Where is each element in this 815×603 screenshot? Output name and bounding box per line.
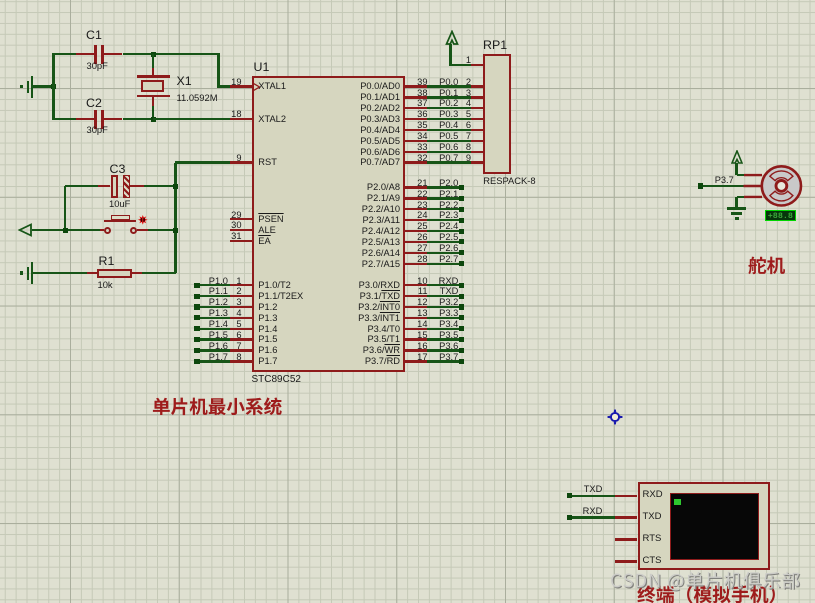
net label P3.3 (430, 308, 458, 318)
net label P0.7 (430, 153, 458, 163)
pin number 3 (218, 297, 242, 307)
wire RST (175, 161, 230, 163)
pin name (330, 182, 400, 192)
capacitor C1 (76, 53, 95, 55)
pin number 8 (218, 352, 242, 362)
terminal P2.1 (459, 196, 464, 201)
pin number 27 (404, 243, 428, 253)
watermark (610, 571, 804, 595)
wire (144, 185, 175, 187)
net label P1.4 (209, 319, 228, 329)
pin number 21 (404, 178, 428, 188)
wire (52, 53, 54, 120)
terminal VT1 virtual-terminal body (638, 482, 771, 570)
pin number 34 (404, 131, 428, 141)
wire (427, 349, 459, 351)
resistor-pack pin 1 stub (471, 64, 483, 66)
wire (33, 85, 54, 87)
pin 11 stub (405, 295, 427, 297)
wire (64, 186, 66, 230)
pin 18 stub (230, 118, 252, 120)
pin 33 stub (405, 151, 427, 153)
terminal pin TXD stub (615, 516, 638, 518)
pin name (330, 302, 400, 312)
pin number 16 (404, 341, 428, 351)
pin 3 stub (230, 306, 252, 308)
pin 30 stub (230, 229, 252, 231)
pin 6 stub (230, 338, 252, 340)
pin number 8 (455, 142, 471, 152)
wire (200, 360, 231, 362)
net label P2.3 (430, 210, 458, 220)
capacitor C3 (65, 185, 98, 187)
wire (427, 107, 471, 109)
pin name (330, 114, 400, 124)
pin number 14 (404, 319, 428, 329)
net label P2.4 (430, 221, 458, 231)
pin name (258, 334, 277, 344)
pin name (643, 490, 663, 500)
terminal input arrow (18, 223, 34, 237)
pin number 13 (404, 308, 428, 318)
servo angle display (765, 210, 797, 221)
label RP1 (483, 39, 507, 52)
node C3-RST junction (173, 184, 178, 189)
net label P0.5 (430, 131, 458, 141)
wire (200, 317, 231, 319)
terminal P3.3 (459, 315, 464, 320)
wire (427, 219, 459, 221)
power VCC arrow (445, 30, 459, 46)
net label P0.6 (430, 142, 458, 152)
pin name (330, 92, 400, 102)
pin name (258, 114, 286, 124)
wire (54, 53, 76, 55)
terminal P2.0 (459, 185, 464, 190)
pin name (258, 324, 277, 334)
pin number 2 (455, 77, 471, 87)
pin number 7 (218, 341, 242, 351)
pin 22 stub (405, 197, 427, 199)
wire (427, 161, 471, 163)
wire (217, 53, 219, 88)
wire (218, 85, 230, 87)
terminal pin RTS stub (615, 538, 638, 540)
pin name (330, 81, 400, 91)
pin number 26 (404, 232, 428, 242)
terminal TXD (567, 493, 572, 498)
net label P3.5 (430, 330, 458, 340)
net label P3.4 (430, 319, 458, 329)
pin number 1 (218, 276, 242, 286)
pin 24 stub (405, 219, 427, 221)
wire (735, 163, 737, 175)
wire (450, 64, 471, 66)
wire (427, 96, 471, 98)
wire (703, 185, 744, 187)
net label P0.1 (430, 88, 458, 98)
terminal P2.7 (459, 261, 464, 266)
terminal P2.5 (459, 239, 464, 244)
pin 9 stub (230, 161, 252, 163)
pin number 9 (455, 153, 471, 163)
pin 10 stub (405, 284, 427, 286)
wire (427, 284, 459, 286)
resistor-pack pin 6 stub (471, 129, 483, 131)
crystal X1 (152, 68, 154, 77)
pin 14 stub (405, 328, 427, 330)
pin name (330, 291, 400, 301)
pin name (330, 313, 400, 323)
wire (572, 495, 614, 497)
pin 23 stub (405, 208, 427, 210)
wire (142, 272, 177, 274)
terminal P3.7 (459, 359, 464, 364)
pin name (258, 81, 286, 91)
pin number 1 (455, 55, 471, 65)
pin number 37 (404, 98, 428, 108)
pin name (330, 356, 400, 366)
pin name (258, 345, 277, 355)
pin name (258, 157, 277, 167)
terminal P3.5 (459, 337, 464, 342)
resistor-pack pin 3 stub (471, 96, 483, 98)
wire (200, 338, 231, 340)
wire (200, 328, 231, 330)
wire (427, 208, 459, 210)
wire (200, 306, 231, 308)
terminal screen (670, 493, 759, 560)
wire (427, 338, 459, 340)
pin 32 stub (405, 161, 427, 163)
wire (427, 151, 471, 153)
pin number 11 (404, 286, 428, 296)
pin number 38 (404, 88, 428, 98)
wire (200, 295, 231, 297)
pin name (330, 147, 400, 157)
terminal P1.2 (194, 304, 199, 309)
terminal RXD (567, 515, 572, 520)
resistor-pack pin 2 stub (471, 85, 483, 87)
pin name (258, 214, 283, 224)
pin name (330, 334, 400, 344)
wire (737, 174, 745, 176)
pin 5 stub (230, 328, 252, 330)
wire (123, 118, 154, 120)
pin number 4 (218, 308, 242, 318)
wire (572, 516, 614, 518)
pin number 15 (404, 330, 428, 340)
wire (427, 129, 471, 131)
node C2-X1 junction (151, 117, 156, 122)
wire (152, 106, 154, 120)
pin number 31 (218, 231, 242, 241)
wire (427, 360, 459, 362)
pin name (330, 226, 400, 236)
pin name (330, 237, 400, 247)
net label P3.2 (430, 297, 458, 307)
pin 17 stub (405, 360, 427, 362)
pin name (330, 103, 400, 113)
terminal P2.6 (459, 250, 464, 255)
pin number 19 (218, 77, 242, 87)
pin name (330, 125, 400, 135)
label servo chinese (748, 256, 788, 280)
terminal P2.2 (459, 207, 464, 212)
pin number 36 (404, 109, 428, 119)
wire (427, 306, 459, 308)
pin number 3 (455, 88, 471, 98)
pin 27 stub (405, 252, 427, 254)
pin name (258, 302, 277, 312)
resistor-pack pin 4 stub (471, 107, 483, 109)
pin name (258, 291, 303, 301)
net label P0.3 (430, 109, 458, 119)
pin 35 stub (405, 129, 427, 131)
net label P2.2 (430, 200, 458, 210)
label terminal chinese (637, 585, 790, 603)
pin number 5 (455, 109, 471, 119)
wire (427, 241, 459, 243)
net label P3.7 (715, 175, 734, 185)
terminal P1.1 (194, 294, 199, 299)
pin name (258, 225, 276, 235)
wire RST vertical (174, 163, 176, 274)
pin number 12 (404, 297, 428, 307)
pin number 39 (404, 77, 428, 87)
pin name (258, 313, 277, 323)
pin name (330, 280, 400, 290)
op-amp U1 microcontroller STC89C52 body (252, 76, 405, 372)
wire (152, 54, 154, 68)
terminal pin RXD stub (615, 495, 638, 497)
pin number 6 (218, 330, 242, 340)
pin number 5 (218, 319, 242, 329)
pin number 30 (218, 220, 242, 230)
wire (123, 53, 219, 55)
pin number 24 (404, 210, 428, 220)
net label P2.5 (430, 232, 458, 242)
pin name (258, 280, 291, 290)
net label P2.7 (430, 254, 458, 264)
pin 19 stub (230, 85, 252, 87)
pin name (330, 345, 400, 355)
wire (735, 197, 737, 208)
wire (427, 252, 459, 254)
pin 12 stub (405, 306, 427, 308)
terminal P3.4 (459, 326, 464, 331)
ground (727, 207, 746, 209)
wire (217, 53, 219, 55)
pin 21 stub (405, 186, 427, 188)
pin 8 stub (230, 360, 252, 362)
pin name (330, 259, 400, 269)
pin 1 stub (230, 284, 252, 286)
terminal TXD (459, 294, 464, 299)
pin name (330, 248, 400, 258)
wire (427, 118, 471, 120)
terminal P1.3 (194, 315, 199, 320)
pin name (330, 136, 400, 146)
net label TXD (574, 484, 602, 494)
node C1-X1 junction (151, 52, 156, 57)
button interactive marker (138, 215, 148, 225)
pin 39 stub (405, 85, 427, 87)
pin number 22 (404, 189, 428, 199)
wire (427, 317, 459, 319)
pin number 32 (404, 153, 428, 163)
pin 38 stub (405, 96, 427, 98)
terminal P3.7 (698, 183, 703, 188)
node origin marker (606, 408, 624, 426)
motor servo body (743, 148, 805, 210)
pin 15 stub (405, 338, 427, 340)
pin 2 stub (230, 295, 252, 297)
pin 13 stub (405, 317, 427, 319)
net label P1.0 (209, 276, 228, 286)
ground (31, 76, 33, 98)
power VCC arrow (731, 150, 743, 164)
wire (427, 197, 459, 199)
pin name (643, 512, 662, 522)
capacitor C2 (76, 118, 95, 120)
terminal P3.2 (459, 304, 464, 309)
pin name (258, 356, 277, 366)
resistor R1 (87, 272, 97, 274)
resistor-pack pin 5 stub (471, 118, 483, 120)
pin name (258, 236, 270, 246)
wire (427, 230, 459, 232)
pin name (330, 324, 400, 334)
pin 26 stub (405, 241, 427, 243)
wire (449, 44, 451, 66)
wire (32, 229, 100, 231)
label RESPACK-8 (483, 176, 535, 186)
pin 29 stub (230, 218, 252, 220)
net label TXD (430, 286, 458, 296)
button K1 (100, 229, 105, 231)
wire (54, 118, 76, 120)
terminal cursor (674, 499, 680, 505)
wire (200, 349, 231, 351)
pin name (330, 204, 400, 214)
wire (737, 196, 745, 198)
pin number 25 (404, 221, 428, 231)
wire (33, 272, 87, 274)
pin number 29 (218, 210, 242, 220)
pin number 4 (455, 98, 471, 108)
terminal P1.6 (194, 348, 199, 353)
pin number 18 (218, 109, 242, 119)
wire (427, 186, 459, 188)
terminal P2.3 (459, 218, 464, 223)
pin 28 stub (405, 263, 427, 265)
pin 34 stub (405, 140, 427, 142)
ground (31, 262, 33, 284)
net label P3.7 (430, 352, 458, 362)
pin name (643, 534, 662, 544)
wire (427, 328, 459, 330)
pin 4 stub (230, 317, 252, 319)
terminal P1.4 (194, 326, 199, 331)
net label P1.2 (209, 297, 228, 307)
pin number 28 (404, 254, 428, 264)
net label P1.7 (209, 352, 228, 362)
terminal P1.7 (194, 359, 199, 364)
wire (153, 118, 230, 120)
net label P0.2 (430, 98, 458, 108)
pin 16 stub (405, 349, 427, 351)
resistor-pack pin 8 stub (471, 151, 483, 153)
pin 37 stub (405, 107, 427, 109)
pin number 6 (455, 120, 471, 130)
node button-RST junction (173, 228, 178, 233)
pin number 35 (404, 120, 428, 130)
pin number 10 (404, 276, 428, 286)
label STC89C52 (252, 374, 301, 385)
resistor-pack pin 7 stub (471, 140, 483, 142)
pin marker XTAL1 clock arrow (253, 83, 261, 91)
pin number 33 (404, 142, 428, 152)
terminal RXD (459, 283, 464, 288)
pin 25 stub (405, 230, 427, 232)
net label P1.6 (209, 341, 228, 351)
node ground-XTAL junction (51, 84, 56, 89)
pin name (330, 157, 400, 167)
resistor-pack RP1 body (483, 54, 512, 174)
wire (148, 229, 176, 231)
pin number 2 (218, 286, 242, 296)
pin number 9 (218, 153, 242, 163)
wire (200, 284, 231, 286)
pin name (643, 556, 662, 566)
net label P2.6 (430, 243, 458, 253)
pin 36 stub (405, 118, 427, 120)
terminal P1.0 (194, 283, 199, 288)
net label P1.3 (209, 308, 228, 318)
terminal P2.4 (459, 229, 464, 234)
wire (427, 140, 471, 142)
net label P1.1 (209, 286, 228, 296)
wire (427, 263, 459, 265)
net label RXD (574, 506, 602, 516)
pin number 7 (455, 131, 471, 141)
pin name (330, 215, 400, 225)
net label RXD (430, 276, 458, 286)
resistor-pack pin 9 stub (471, 161, 483, 163)
pin 31 stub (230, 240, 252, 242)
pin name (330, 193, 400, 203)
pin 7 stub (230, 349, 252, 351)
terminal pin CTS stub (615, 560, 638, 562)
net label P0.4 (430, 120, 458, 130)
terminal P3.6 (459, 348, 464, 353)
terminal P1.5 (194, 337, 199, 342)
node button junction (63, 228, 68, 233)
label minimal system chinese (152, 397, 285, 421)
net label P0.0 (430, 77, 458, 87)
wire (427, 85, 471, 87)
net label P2.0 (430, 178, 458, 188)
wire (427, 295, 459, 297)
pin number 17 (404, 352, 428, 362)
net label P2.1 (430, 189, 458, 199)
net label P3.6 (430, 341, 458, 351)
net label P1.5 (209, 330, 228, 340)
label U1 (254, 61, 270, 74)
pin number 23 (404, 200, 428, 210)
